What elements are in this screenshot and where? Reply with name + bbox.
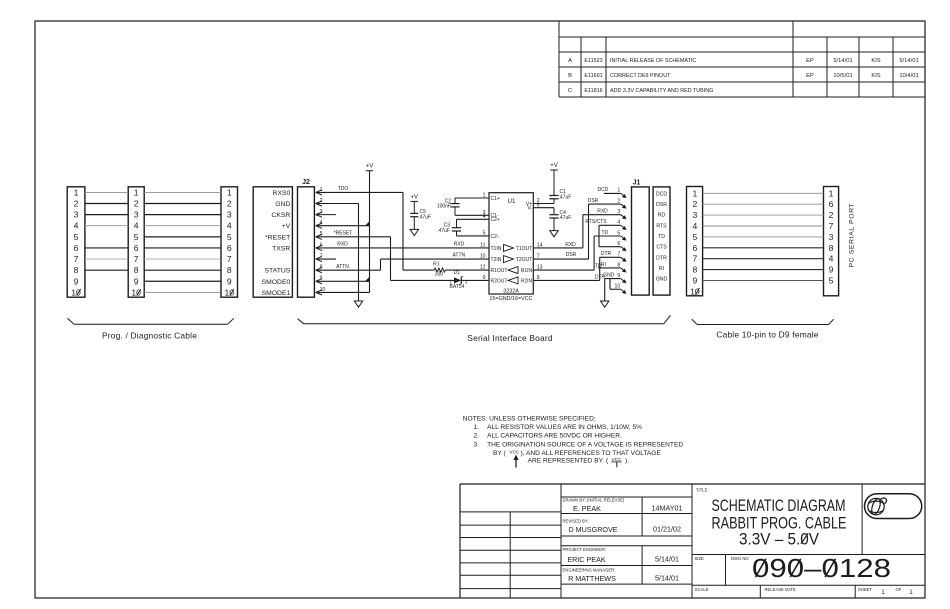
svg-text:J1: J1 <box>633 180 641 187</box>
svg-text:2: 2 <box>320 198 323 204</box>
svg-text:RXD: RXD <box>597 209 608 215</box>
svg-text:01/21/02: 01/21/02 <box>653 525 681 534</box>
svg-text:TD: TD <box>658 234 665 240</box>
svg-text:2: 2 <box>74 199 79 209</box>
svg-text:8: 8 <box>227 265 232 275</box>
svg-text:10: 10 <box>131 287 141 297</box>
svg-text:8: 8 <box>134 265 139 275</box>
svg-text:330: 330 <box>435 272 444 278</box>
svg-text:T2OUT: T2OUT <box>516 257 532 263</box>
svg-text:3232A: 3232A <box>503 289 519 295</box>
svg-text:EP: EP <box>806 58 814 64</box>
svg-text:4: 4 <box>692 221 697 231</box>
svg-text:10/4/01: 10/4/01 <box>899 73 918 79</box>
svg-text:3.: 3. <box>474 441 480 448</box>
svg-text:SCHEMATIC DIAGRAM: SCHEMATIC DIAGRAM <box>712 497 846 515</box>
svg-text:R MATTHEWS: R MATTHEWS <box>568 574 616 583</box>
svg-text:EP: EP <box>806 73 814 79</box>
svg-text:*RESET: *RESET <box>265 234 290 241</box>
svg-text:ATTN: ATTN <box>336 264 349 270</box>
svg-text:8: 8 <box>829 243 834 253</box>
svg-text:8: 8 <box>74 265 79 275</box>
svg-text:TXSR: TXSR <box>272 245 290 252</box>
svg-text:5/14/01: 5/14/01 <box>899 58 918 64</box>
svg-text:9: 9 <box>617 273 620 279</box>
svg-text:5: 5 <box>227 232 232 242</box>
svg-text:4: 4 <box>227 221 232 231</box>
svg-text:RXS0: RXS0 <box>273 190 291 197</box>
svg-text:.47uF: .47uF <box>437 228 450 234</box>
svg-text:6: 6 <box>692 243 697 253</box>
svg-text:KIS: KIS <box>871 73 880 79</box>
svg-text:4: 4 <box>74 221 79 231</box>
svg-text:RI: RI <box>601 262 606 268</box>
svg-text:NOTES: UNLESS OTHERWISE SPECIF: NOTES: UNLESS OTHERWISE SPECIFIED; <box>463 415 596 422</box>
svg-text:4: 4 <box>617 220 620 226</box>
svg-text:3: 3 <box>227 210 232 220</box>
svg-text:9: 9 <box>320 276 323 282</box>
svg-text:2: 2 <box>134 199 139 209</box>
svg-text:5/14/01: 5/14/01 <box>655 574 679 583</box>
svg-text:TITLE: TITLE <box>696 487 708 492</box>
svg-text:DSR: DSR <box>588 198 599 204</box>
svg-text:4: 4 <box>483 214 486 220</box>
svg-text:DSR: DSR <box>656 202 667 208</box>
svg-text:T1IN: T1IN <box>491 246 502 252</box>
svg-text:7: 7 <box>134 254 139 264</box>
svg-text:5: 5 <box>617 230 620 236</box>
svg-text:R1OUT: R1OUT <box>491 268 508 274</box>
svg-text:PROJECT ENGINEER:: PROJECT ENGINEER: <box>563 547 607 552</box>
svg-text:DCD: DCD <box>597 187 608 193</box>
svg-text:ALL CAPACITORS ARE 50VDC OR HI: ALL CAPACITORS ARE 50VDC OR HIGHER. <box>487 433 622 440</box>
svg-text:7: 7 <box>692 254 697 264</box>
svg-text:Cable 10-pin to D9 female: Cable 10-pin to D9 female <box>716 330 818 340</box>
svg-text:3: 3 <box>320 209 323 215</box>
svg-text:7: 7 <box>320 253 323 259</box>
svg-text:GND: GND <box>656 277 668 283</box>
svg-text:RTS/CTS: RTS/CTS <box>585 219 607 225</box>
svg-text:3: 3 <box>692 210 697 220</box>
svg-text:14MAY01: 14MAY01 <box>651 504 682 513</box>
svg-text:2: 2 <box>692 199 697 209</box>
svg-text:10: 10 <box>224 287 234 297</box>
svg-text:BAT54: BAT54 <box>450 284 465 290</box>
svg-text:15=GND/16=VCC: 15=GND/16=VCC <box>489 296 532 302</box>
svg-text:R1IN: R1IN <box>521 268 533 274</box>
svg-text:ENGINEERING MANAGER:: ENGINEERING MANAGER: <box>563 567 616 572</box>
svg-text:6: 6 <box>829 199 834 209</box>
svg-text:4: 4 <box>134 221 139 231</box>
svg-text:Prog. / Diagnostic Cable: Prog. / Diagnostic Cable <box>102 330 197 340</box>
svg-text:TDO: TDO <box>338 186 349 192</box>
svg-text:3: 3 <box>617 209 620 215</box>
svg-text:GND: GND <box>603 272 615 278</box>
svg-text:6: 6 <box>74 243 79 253</box>
svg-text:E11523: E11523 <box>584 58 602 64</box>
svg-text:3.3V – 5.0V: 3.3V – 5.0V <box>739 531 819 549</box>
svg-text:3: 3 <box>134 210 139 220</box>
svg-text:4: 4 <box>320 220 323 226</box>
svg-text:9: 9 <box>483 275 486 281</box>
svg-text:1: 1 <box>134 187 139 197</box>
svg-text:1: 1 <box>74 187 79 197</box>
svg-text:TD: TD <box>601 230 608 236</box>
svg-text:7: 7 <box>74 254 79 264</box>
svg-text:OF: OF <box>895 587 901 592</box>
svg-text:R2IN: R2IN <box>521 278 533 284</box>
svg-text:INITIAL RELEASE OF SCHEMATIC: INITIAL RELEASE OF SCHEMATIC <box>610 58 696 64</box>
svg-text:9: 9 <box>227 276 232 286</box>
svg-text:SIZE: SIZE <box>695 556 705 561</box>
svg-text:SMODE1: SMODE1 <box>262 290 291 297</box>
svg-text:REVISED BY:: REVISED BY: <box>563 518 589 523</box>
svg-text:7: 7 <box>227 254 232 264</box>
svg-text:PC SERIAL PORT: PC SERIAL PORT <box>849 203 856 268</box>
svg-text:2: 2 <box>829 210 834 220</box>
svg-text:RELEASE DATE: RELEASE DATE <box>765 587 797 592</box>
svg-text:5: 5 <box>829 276 834 286</box>
svg-text:ARE REPRESENTED BY: ARE REPRESENTED BY <box>528 457 604 464</box>
svg-text:5: 5 <box>320 231 323 237</box>
svg-text:THE ORIGINATION SOURCE OF A VO: THE ORIGINATION SOURCE OF A VOLTAGE IS R… <box>487 441 683 448</box>
svg-text:Serial Interface Board: Serial Interface Board <box>467 333 553 343</box>
svg-text:DTR: DTR <box>656 255 667 261</box>
svg-text:4: 4 <box>829 254 834 264</box>
svg-text:11: 11 <box>480 243 485 249</box>
svg-text:9: 9 <box>692 276 697 286</box>
svg-text:1.: 1. <box>474 424 480 431</box>
svg-text:9: 9 <box>134 276 139 286</box>
svg-text:1: 1 <box>483 193 486 199</box>
svg-text:3: 3 <box>74 210 79 220</box>
svg-text:8: 8 <box>692 265 697 275</box>
svg-text:9: 9 <box>829 265 834 275</box>
svg-text:.47uF: .47uF <box>418 215 431 221</box>
svg-text:DRAWN BY: (INITIAL RELEASE): DRAWN BY: (INITIAL RELEASE) <box>563 497 625 502</box>
svg-text:9: 9 <box>74 276 79 286</box>
svg-text:RXD: RXD <box>565 242 576 248</box>
svg-text:2: 2 <box>227 199 232 209</box>
svg-text:8: 8 <box>617 262 620 268</box>
svg-text:10/5/01: 10/5/01 <box>833 73 852 79</box>
svg-text:).: ). <box>625 457 629 464</box>
svg-text:6: 6 <box>227 243 232 253</box>
svg-text:D1: D1 <box>454 270 461 276</box>
svg-text:5: 5 <box>74 232 79 242</box>
svg-text:1: 1 <box>617 188 620 194</box>
svg-text:1: 1 <box>881 589 885 596</box>
svg-text:E11816: E11816 <box>584 88 602 94</box>
svg-text:RTS: RTS <box>656 223 667 229</box>
svg-text:10: 10 <box>480 254 486 260</box>
svg-text:ALL RESISTOR VALUES ARE IN OHM: ALL RESISTOR VALUES ARE IN OHMS, 1/10W, … <box>487 424 642 431</box>
svg-text:R1: R1 <box>433 262 440 268</box>
svg-text:+V: +V <box>411 194 419 200</box>
svg-text:ERIC PEAK: ERIC PEAK <box>567 555 606 564</box>
svg-text:1: 1 <box>909 589 913 596</box>
svg-text:6: 6 <box>617 241 620 247</box>
svg-text:CORRECT DE9 PINOUT: CORRECT DE9 PINOUT <box>610 73 671 79</box>
svg-text:8: 8 <box>320 265 323 271</box>
svg-text:10: 10 <box>71 287 81 297</box>
svg-text:1: 1 <box>692 188 697 198</box>
svg-text:090–0128: 090–0128 <box>752 553 891 583</box>
svg-text:5: 5 <box>483 231 486 237</box>
svg-text:5: 5 <box>134 232 139 242</box>
svg-text:E. PEAK: E. PEAK <box>573 504 601 513</box>
svg-text:1: 1 <box>320 187 323 193</box>
svg-text:12: 12 <box>480 265 486 271</box>
svg-text:5/14/01: 5/14/01 <box>655 554 679 563</box>
svg-text:7: 7 <box>617 252 620 258</box>
svg-text:+V: +V <box>550 163 558 169</box>
svg-text:7: 7 <box>829 221 834 231</box>
svg-text:KIS: KIS <box>871 58 880 64</box>
svg-text:VCC: VCC <box>509 449 520 455</box>
svg-text:2.: 2. <box>474 433 480 440</box>
svg-text:C2+: C2+ <box>491 217 500 223</box>
svg-text:+V: +V <box>282 223 291 230</box>
svg-text:SMODE0: SMODE0 <box>262 279 291 286</box>
svg-text:C1+: C1+ <box>491 196 500 202</box>
svg-text:C: C <box>568 88 572 94</box>
svg-text:RD: RD <box>658 213 666 219</box>
svg-text:A: A <box>568 58 572 64</box>
svg-text:.47uF: .47uF <box>559 194 572 200</box>
svg-text:.47uF: .47uF <box>559 215 572 221</box>
svg-text:RXD: RXD <box>337 242 348 248</box>
svg-text:DCD: DCD <box>656 191 667 197</box>
svg-text:SHEET: SHEET <box>858 587 872 592</box>
svg-text:GND: GND <box>275 201 290 208</box>
svg-text:6: 6 <box>320 242 323 248</box>
svg-text:10: 10 <box>320 287 326 293</box>
svg-text:CTS: CTS <box>656 245 667 251</box>
svg-text:1: 1 <box>227 187 232 197</box>
svg-text:10: 10 <box>615 284 621 290</box>
svg-text:STATUS: STATUS <box>264 268 290 275</box>
svg-text:6: 6 <box>134 243 139 253</box>
svg-text:DSR: DSR <box>566 252 577 258</box>
svg-text:), AND ALL REFERENCES TO THAT: ), AND ALL REFERENCES TO THAT VOLTAGE <box>521 450 662 457</box>
svg-text:RXD: RXD <box>454 242 465 248</box>
svg-text:E11691: E11691 <box>584 73 602 79</box>
svg-text:RI: RI <box>659 266 664 272</box>
svg-text:U1: U1 <box>508 198 516 205</box>
svg-text:C2-: C2- <box>491 234 499 240</box>
svg-text:ADD 3.3V CAPABILITY AND RED TU: ADD 3.3V CAPABILITY AND RED TUBING <box>610 88 713 94</box>
svg-text:5: 5 <box>692 232 697 242</box>
svg-text:CKSR: CKSR <box>271 212 290 219</box>
svg-text:BY (: BY ( <box>493 450 507 457</box>
svg-text:DWG NO: DWG NO <box>731 556 749 561</box>
svg-text:T2IN: T2IN <box>491 257 502 263</box>
svg-text:+V: +V <box>366 164 374 170</box>
svg-text:1: 1 <box>829 188 834 198</box>
svg-text:3: 3 <box>829 232 834 242</box>
svg-text:2: 2 <box>617 198 620 204</box>
svg-text:DTR: DTR <box>601 251 612 257</box>
svg-text:B: B <box>568 73 572 79</box>
svg-text:J2: J2 <box>302 179 310 186</box>
svg-text:100nF: 100nF <box>437 204 451 210</box>
svg-text:SCALE: SCALE <box>695 587 709 592</box>
svg-text:T1OUT: T1OUT <box>516 246 532 252</box>
svg-text:R2OUT: R2OUT <box>491 278 508 284</box>
svg-text:V-: V- <box>527 206 532 212</box>
svg-text:5/14/01: 5/14/01 <box>833 58 852 64</box>
svg-text:ATTN: ATTN <box>452 253 465 259</box>
svg-text:*RESET: *RESET <box>334 230 353 236</box>
svg-text:10: 10 <box>690 286 700 296</box>
svg-text:D MUSGROVE: D MUSGROVE <box>568 525 617 534</box>
